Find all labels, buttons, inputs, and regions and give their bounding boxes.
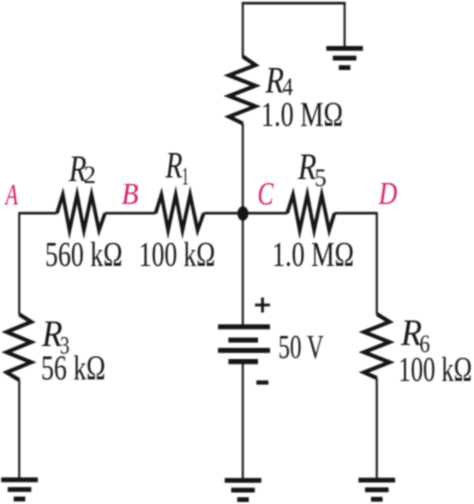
svg-text:560 kΩ: 560 kΩ [45,235,123,274]
svg-text:1.0 MΩ: 1.0 MΩ [261,95,343,134]
svg-text:100 kΩ: 100 kΩ [139,235,216,274]
svg-text:D: D [378,175,397,211]
svg-text:2: 2 [84,160,97,189]
svg-text:5: 5 [315,163,327,192]
svg-text:A: A [4,178,18,211]
svg-text:50 V: 50 V [278,329,324,366]
svg-text:100 kΩ: 100 kΩ [399,350,473,389]
svg-text:R: R [165,145,183,186]
svg-text:C: C [258,176,275,212]
svg-text:B: B [122,176,139,211]
svg-text:1: 1 [182,162,189,191]
svg-text:56 kΩ: 56 kΩ [41,349,106,388]
svg-text:1.0 MΩ: 1.0 MΩ [272,235,354,274]
